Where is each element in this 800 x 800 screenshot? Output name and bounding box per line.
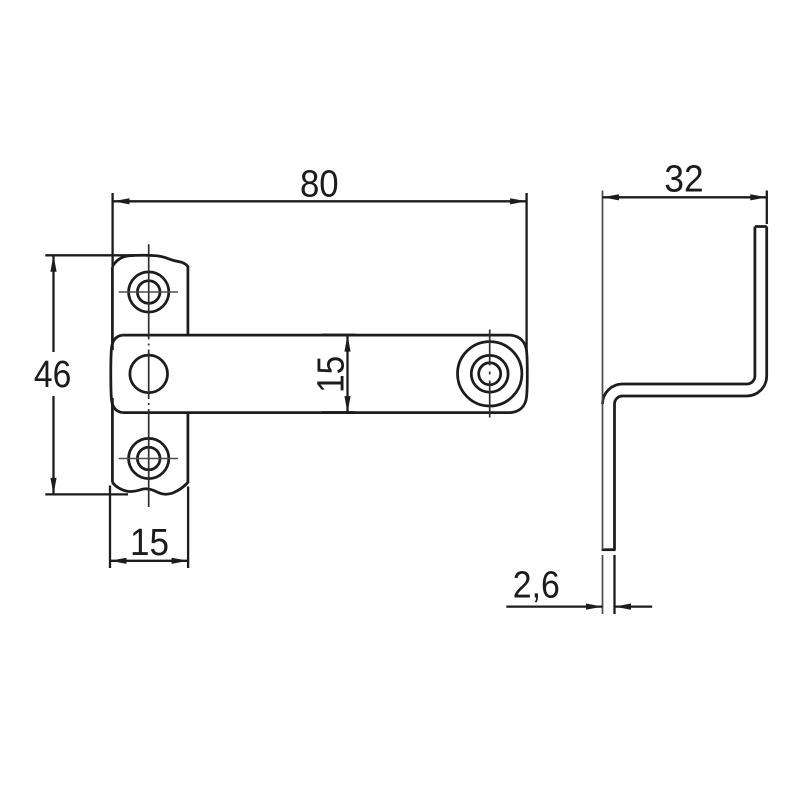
- top hole outer circle: [129, 272, 169, 312]
- svg-text:15: 15: [311, 356, 353, 393]
- svg-text:80: 80: [300, 164, 339, 206]
- middle hole circle: [130, 355, 168, 393]
- plate top arc: [112, 255, 187, 266]
- dim 80 arrow right: [510, 198, 526, 204]
- profile outer contour: [615, 227, 767, 550]
- dim 15 plate arrow left: [110, 558, 127, 564]
- svg-text:46: 46: [34, 354, 71, 396]
- dim 32 extension line left: [602, 191, 604, 550]
- arm left end: [111, 335, 123, 413]
- end hole vertical centerline: [489, 330, 491, 418]
- plate bottom arc: [112, 483, 187, 495]
- dim 2,6 line right segment: [615, 605, 653, 607]
- dim 32 arrow left: [603, 194, 620, 200]
- dim 80 extension line left: [111, 193, 113, 265]
- dim 15 arm line: [346, 335, 348, 413]
- plate right edge lower: [187, 413, 190, 483]
- dim 80 arrow left: [113, 198, 130, 204]
- dim 80 line: [113, 200, 527, 202]
- svg-text:2,6: 2,6: [513, 564, 560, 606]
- bottom hole horizontal centerline: [119, 458, 178, 460]
- dim 46 line lower: [52, 396, 54, 494]
- dim 15 plate ext line right: [187, 487, 189, 569]
- dim 46 arrow bottom: [50, 478, 56, 495]
- svg-text:32: 32: [664, 159, 703, 201]
- dim 32 arrow right: [750, 194, 767, 200]
- plate left edge lower: [111, 398, 114, 483]
- top hole horizontal centerline: [119, 291, 178, 293]
- plate vertical centerline: [148, 244, 150, 507]
- arm top edge: [123, 334, 511, 337]
- profile inner contour: [603, 227, 755, 405]
- end hole inner circle: [479, 363, 501, 385]
- dim 2,6 arrow left: [586, 604, 603, 610]
- dim 15 plate ext line left: [109, 486, 111, 569]
- dim 80 extension line right: [525, 193, 527, 351]
- bottom hole outer circle: [129, 438, 169, 478]
- bottom hole inner circle: [137, 447, 160, 470]
- dim 15 arm ext mark bottom: [322, 411, 355, 414]
- dim 46 arrow top: [50, 255, 56, 271]
- dim 15 arm arrow bottom: [344, 396, 350, 413]
- dim 15 plate line: [110, 560, 188, 562]
- plate left edge: [111, 267, 114, 351]
- arm right end: [511, 335, 528, 413]
- profile top cap: [755, 225, 767, 228]
- arm bottom edge: [123, 411, 511, 414]
- dim 15 plate arrow right: [172, 558, 189, 564]
- end hole middle circle: [471, 355, 508, 392]
- plate right edge upper: [187, 266, 190, 335]
- end hole outer circle: [458, 342, 522, 406]
- dim 2,6 line left segment: [506, 605, 602, 607]
- dim 2,6 extension line right: [613, 555, 615, 614]
- svg-text:15: 15: [130, 522, 169, 564]
- dim 2,6 arrow right: [615, 604, 632, 610]
- dim 46 line upper: [52, 256, 54, 352]
- dim 32 extension line right: [766, 191, 768, 225]
- dim 46 extension line top: [45, 254, 152, 256]
- dim 32 line: [603, 196, 767, 198]
- dim 2,6 extension line left: [602, 555, 604, 614]
- dim 15 arm arrow top: [344, 335, 350, 352]
- dim 46 extension line bottom: [45, 493, 128, 495]
- profile bottom cap: [602, 548, 616, 551]
- dim 15 arm ext mark top: [322, 334, 355, 337]
- top hole inner circle: [137, 281, 160, 304]
